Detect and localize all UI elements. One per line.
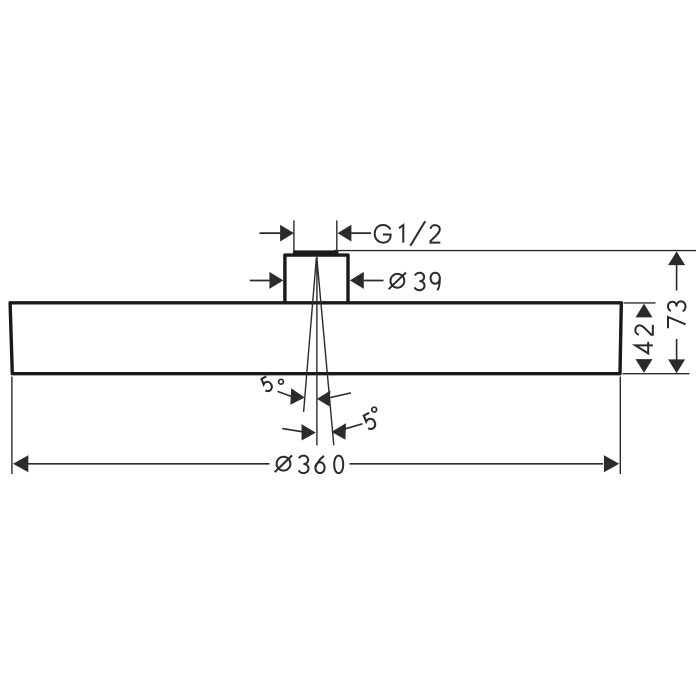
- lower 5 deg label: [362, 413, 377, 431]
- spray angle line right (5 deg): [317, 258, 334, 446]
- label diameter 360: [275, 455, 344, 473]
- 42 dimension lower arrow (points down): [636, 359, 653, 373]
- 73 dimension lower arrow (points down): [676, 339, 678, 360]
- G1/2 dimension left arrow: [260, 232, 281, 234]
- G1/2 extension line left: [293, 220, 295, 250]
- diameter 360 extension line right: [619, 377, 621, 475]
- upper 5 deg label: [260, 376, 274, 392]
- diameter 360 right arrow (points right): [350, 463, 604, 465]
- 73 top extension line (from thread top): [334, 250, 696, 252]
- diameter 39 right arrow: [350, 272, 364, 289]
- label G1/2: [375, 221, 441, 246]
- spray angle line left (5 deg): [304, 258, 317, 412]
- body bottom extension line (right): [623, 373, 690, 375]
- G1/2 extension line right: [336, 220, 338, 250]
- diameter 360 left arrow (points left): [13, 455, 28, 472]
- label 73 (rotated): [668, 301, 686, 328]
- G1/2 dimension right arrow: [338, 225, 352, 242]
- label 42 (rotated): [635, 325, 653, 354]
- diameter 360 extension line left: [11, 377, 13, 475]
- upper 5 deg right arrow (points left to centre line): [317, 391, 330, 407]
- lower 5 deg right arrow (points left to right spray line): [331, 423, 346, 440]
- connector nut (ceiling connector block): [285, 255, 348, 302]
- 42 top extension line: [624, 302, 656, 304]
- diameter 39 left arrow: [250, 280, 270, 282]
- 73 dimension upper arrow (points up): [668, 251, 685, 265]
- upper 5 deg leader left arrow (points right to left spray line): [278, 391, 292, 396]
- shower head body (plate, side view): [10, 303, 621, 374]
- G1/2 thread stub (solid bar): [293, 250, 339, 255]
- label diameter 39: [389, 273, 440, 291]
- 42 dimension upper arrow (points up): [636, 304, 653, 318]
- centre line of spray: [316, 255, 318, 445]
- lower 5 deg left arrow (points right to centre line): [282, 429, 302, 432]
